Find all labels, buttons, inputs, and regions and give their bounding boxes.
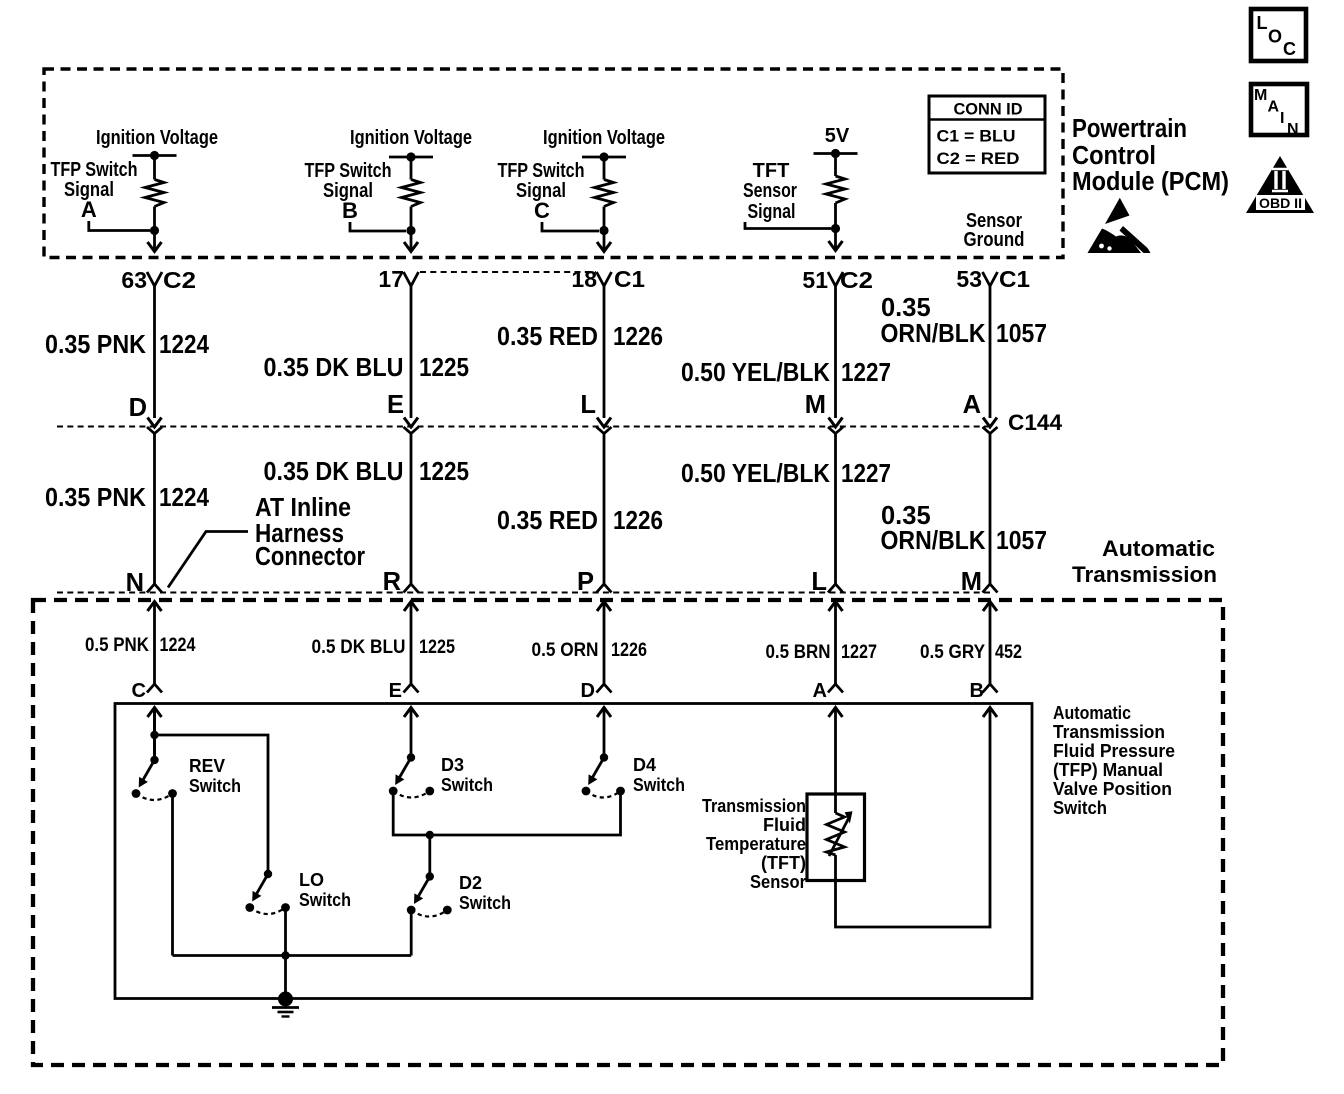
wire bbox=[153, 156, 156, 180]
label 0.5 BRN 1227 bbox=[766, 642, 878, 663]
svg-text:C2: C2 bbox=[163, 267, 196, 293]
wire D2 left contact down bbox=[410, 910, 413, 956]
pin arrow down 2 bbox=[404, 242, 418, 252]
wire C1 connector dashed link 17-18 bbox=[420, 271, 596, 273]
label 0.35 DK BLU 1225 upper bbox=[264, 354, 470, 382]
svg-text:0.5 ORN: 0.5 ORN bbox=[532, 640, 599, 661]
svg-text:0.50 YEL/BLK: 0.50 YEL/BLK bbox=[681, 460, 831, 488]
svg-text:Automatic: Automatic bbox=[1053, 703, 1131, 723]
pin L at C144 bbox=[580, 391, 611, 434]
svg-text:Transmission: Transmission bbox=[1072, 562, 1217, 587]
svg-text:18: 18 bbox=[571, 266, 597, 292]
svg-text:1225: 1225 bbox=[419, 458, 469, 486]
pin 63 C2 socket bbox=[121, 267, 196, 293]
entry arrow C wire bbox=[148, 602, 162, 685]
pin C socket bbox=[132, 680, 162, 702]
svg-text:TFP Switch: TFP Switch bbox=[51, 159, 138, 181]
svg-text:C2 = RED: C2 = RED bbox=[937, 149, 1020, 168]
svg-text:1224: 1224 bbox=[160, 635, 196, 656]
node Ignition Voltage 2 bbox=[350, 127, 472, 149]
label 0.5 DK BLU 1225 bbox=[312, 637, 456, 658]
label Powertrain Control Module (PCM) bbox=[1072, 115, 1229, 196]
node TFP Switch Signal C bbox=[498, 160, 585, 223]
icon LOC box bbox=[1251, 9, 1306, 61]
icon ESD symbol bbox=[1088, 198, 1151, 253]
svg-text:R: R bbox=[383, 568, 401, 596]
resistor TFT pull-up bbox=[826, 176, 845, 203]
wire E into box bbox=[404, 708, 418, 758]
wire pointer to AT inline connector bbox=[168, 532, 248, 588]
svg-text:Powertrain: Powertrain bbox=[1072, 115, 1187, 143]
svg-text:1057: 1057 bbox=[996, 527, 1047, 555]
wire branch to LO bbox=[155, 735, 269, 874]
pin M at C144 bbox=[805, 391, 843, 434]
pin M at inline bbox=[961, 568, 998, 596]
svg-text:C1 = BLU: C1 = BLU bbox=[937, 127, 1016, 146]
svg-text:0.5 GRY: 0.5 GRY bbox=[920, 642, 985, 663]
svg-text:Ignition Voltage: Ignition Voltage bbox=[96, 127, 218, 149]
wire ignition bar 3 bbox=[582, 152, 626, 161]
node Ignition Voltage 1 bbox=[96, 127, 218, 149]
svg-text:AT Inline: AT Inline bbox=[255, 494, 351, 522]
svg-text:L: L bbox=[811, 568, 827, 596]
svg-text:A: A bbox=[813, 680, 827, 702]
pin B socket bbox=[970, 680, 998, 702]
svg-text:(TFP) Manual: (TFP) Manual bbox=[1053, 760, 1163, 780]
label 0.35 PNK 1224 mid bbox=[45, 484, 210, 512]
label AT Inline Harness Connector bbox=[255, 494, 365, 571]
svg-text:D: D bbox=[581, 680, 595, 702]
svg-text:B: B bbox=[342, 198, 358, 223]
wire bbox=[834, 154, 837, 177]
svg-text:CONN ID: CONN ID bbox=[954, 100, 1023, 119]
svg-text:Control: Control bbox=[1072, 142, 1156, 170]
wire bbox=[406, 207, 415, 245]
svg-text:L: L bbox=[1257, 13, 1268, 33]
label 0.5 PNK 1224 bbox=[85, 635, 196, 656]
pin 17 socket bbox=[378, 266, 418, 292]
svg-text:1227: 1227 bbox=[841, 642, 877, 663]
label Transmission Fluid Temperature (TFT) Sensor bbox=[702, 796, 806, 892]
svg-text:Connector: Connector bbox=[255, 543, 365, 571]
svg-text:D3: D3 bbox=[441, 755, 464, 775]
svg-text:M: M bbox=[805, 391, 826, 419]
D3 switch bbox=[389, 753, 493, 797]
TFT sensor box bbox=[807, 794, 865, 881]
wire bracket C bbox=[542, 222, 599, 231]
label 0.35 ORN/BLK 1057 mid bbox=[881, 502, 1048, 555]
svg-text:P: P bbox=[577, 568, 594, 596]
wire TFT sensor return bbox=[836, 708, 998, 928]
svg-text:N: N bbox=[126, 569, 144, 597]
svg-text:Sensor: Sensor bbox=[743, 180, 797, 202]
wire bracket B bbox=[350, 222, 406, 231]
resistor pull-up 3 bbox=[595, 180, 614, 207]
wire 5V bar bbox=[814, 149, 858, 158]
wire bbox=[150, 207, 159, 245]
svg-text:Switch: Switch bbox=[189, 776, 241, 796]
node TFT Sensor Signal bbox=[743, 160, 797, 223]
svg-text:0.5 PNK: 0.5 PNK bbox=[85, 635, 149, 656]
entry arrow B wire bbox=[983, 602, 997, 685]
svg-text:Fluid Pressure: Fluid Pressure bbox=[1053, 741, 1175, 761]
svg-text:1227: 1227 bbox=[841, 460, 891, 488]
wire bracket A bbox=[89, 221, 150, 231]
label 0.35 RED 1226 upper bbox=[497, 323, 663, 351]
label 0.50 YEL/BLK 1227 upper bbox=[681, 359, 891, 387]
wire D2 drop bbox=[428, 835, 431, 877]
wire DK BLU upper bbox=[410, 286, 413, 418]
label Automatic Transmission bbox=[1072, 536, 1217, 587]
svg-text:17: 17 bbox=[378, 266, 404, 292]
label 0.35 DK BLU 1225 mid bbox=[264, 458, 470, 486]
svg-text:C: C bbox=[534, 198, 550, 223]
svg-text:M: M bbox=[1254, 87, 1267, 104]
label Automatic Transmission Fluid Pressure (TFP) Manual Valve Position Switch bbox=[1053, 703, 1175, 818]
svg-text:I: I bbox=[1280, 110, 1284, 127]
wire ORN/BLK upper bbox=[989, 286, 992, 418]
svg-text:0.35 DK BLU: 0.35 DK BLU bbox=[264, 354, 404, 382]
pin arrow down 3 bbox=[597, 242, 611, 252]
svg-text:Switch: Switch bbox=[299, 890, 351, 910]
thermistor TFT bbox=[827, 794, 853, 881]
TFP switch assembly box bbox=[115, 704, 1032, 999]
svg-text:1226: 1226 bbox=[611, 640, 647, 661]
pin arrow down 1 bbox=[148, 242, 162, 252]
wire C into box bbox=[148, 708, 162, 761]
svg-text:TFP Switch: TFP Switch bbox=[498, 160, 585, 182]
Powertrain Control Module PCM dashed box bbox=[44, 69, 1063, 258]
D4 switch bbox=[582, 753, 685, 797]
entry arrow E wire bbox=[404, 602, 418, 685]
svg-text:TFT: TFT bbox=[753, 160, 790, 182]
icon MAIN box bbox=[1251, 84, 1307, 138]
svg-text:Valve Position: Valve Position bbox=[1053, 779, 1172, 799]
wire PNK upper bbox=[153, 286, 156, 418]
node AT inline harness connector dashed line bbox=[57, 592, 990, 594]
svg-text:Ignition Voltage: Ignition Voltage bbox=[350, 127, 472, 149]
wire A into box bbox=[829, 708, 843, 795]
node TFP Switch Signal A bbox=[51, 159, 138, 222]
svg-text:OBD II: OBD II bbox=[1259, 196, 1302, 211]
svg-text:C: C bbox=[132, 680, 146, 702]
node Ignition Voltage 3 bbox=[543, 127, 665, 149]
pin P at inline bbox=[577, 568, 612, 596]
svg-text:0.35 DK BLU: 0.35 DK BLU bbox=[264, 458, 404, 486]
svg-text:5V: 5V bbox=[825, 125, 850, 147]
pin 53 C1 socket bbox=[956, 266, 1030, 292]
entry arrow A wire bbox=[829, 602, 843, 685]
entry arrow D wire bbox=[597, 602, 611, 685]
svg-text:LO: LO bbox=[299, 870, 324, 890]
svg-text:D2: D2 bbox=[459, 873, 482, 893]
pin 51 C2 socket bbox=[802, 267, 873, 293]
svg-text:A: A bbox=[963, 391, 981, 419]
svg-text:C2: C2 bbox=[840, 267, 873, 293]
icon OBD II triangle bbox=[1246, 156, 1314, 213]
D2 switch bbox=[407, 872, 511, 916]
wire DK BLU mid bbox=[410, 434, 413, 585]
wire ignition bar 2 bbox=[389, 152, 433, 161]
svg-text:Module (PCM): Module (PCM) bbox=[1072, 168, 1229, 196]
svg-text:1225: 1225 bbox=[419, 354, 469, 382]
svg-text:A: A bbox=[1268, 99, 1280, 116]
svg-text:A: A bbox=[81, 197, 97, 222]
svg-text:0.5 BRN: 0.5 BRN bbox=[766, 642, 831, 663]
label 0.5 GRY 452 bbox=[920, 642, 1022, 663]
svg-text:D: D bbox=[129, 394, 147, 422]
svg-text:51: 51 bbox=[802, 267, 828, 293]
svg-text:B: B bbox=[970, 680, 984, 702]
pin N at inline bbox=[126, 569, 162, 597]
pin R at inline bbox=[383, 568, 419, 596]
svg-text:Switch: Switch bbox=[441, 775, 493, 795]
wire ORN/BLK mid bbox=[989, 434, 992, 585]
svg-text:E: E bbox=[389, 680, 402, 702]
ground bbox=[272, 992, 299, 1017]
svg-text:D4: D4 bbox=[633, 755, 656, 775]
CONN ID table bbox=[929, 96, 1045, 173]
label 0.5 ORN 1226 bbox=[532, 640, 648, 661]
node TFP Switch Signal B bbox=[305, 160, 392, 223]
label 0.35 PNK 1224 upper bbox=[45, 331, 210, 359]
resistor pull-up 1 bbox=[145, 180, 164, 207]
wire D3 left contact down and across bbox=[393, 791, 620, 839]
svg-text:REV: REV bbox=[189, 756, 225, 776]
svg-text:53: 53 bbox=[956, 266, 982, 292]
svg-text:0.35 RED: 0.35 RED bbox=[497, 323, 598, 351]
svg-text:1227: 1227 bbox=[841, 359, 891, 387]
svg-text:(TFT): (TFT) bbox=[761, 853, 806, 873]
node 5V bbox=[825, 125, 850, 147]
svg-text:1057: 1057 bbox=[996, 320, 1047, 348]
svg-text:Automatic: Automatic bbox=[1102, 536, 1215, 561]
svg-text:0.35 PNK: 0.35 PNK bbox=[45, 484, 147, 512]
wire ignition bar 1 bbox=[133, 151, 177, 160]
wire YEL/BLK upper bbox=[834, 286, 837, 418]
svg-text:TFP Switch: TFP Switch bbox=[305, 160, 392, 182]
Automatic Transmission dashed box bbox=[33, 600, 1223, 1065]
svg-text:0.35 PNK: 0.35 PNK bbox=[45, 331, 147, 359]
wire PNK mid bbox=[153, 434, 156, 585]
REV switch bbox=[132, 756, 241, 800]
wire RED upper bbox=[603, 286, 606, 418]
svg-text:1226: 1226 bbox=[613, 507, 663, 535]
svg-text:Transmission: Transmission bbox=[702, 796, 806, 816]
wire bbox=[603, 157, 606, 180]
svg-text:1225: 1225 bbox=[419, 637, 455, 658]
svg-text:ORN/BLK: ORN/BLK bbox=[881, 320, 987, 348]
wire RED mid bbox=[603, 434, 606, 585]
svg-text:C: C bbox=[1283, 39, 1296, 59]
pin L at inline bbox=[811, 568, 843, 596]
pin E socket bbox=[389, 680, 419, 702]
svg-text:1224: 1224 bbox=[159, 331, 210, 359]
svg-text:Temperature: Temperature bbox=[706, 834, 806, 854]
svg-text:C1: C1 bbox=[999, 266, 1030, 292]
pin 18 C1 socket bbox=[571, 266, 645, 292]
svg-text:Signal: Signal bbox=[748, 201, 796, 223]
resistor pull-up 2 bbox=[402, 180, 421, 207]
svg-text:Transmission: Transmission bbox=[1053, 722, 1165, 742]
wire bottom run bbox=[173, 954, 412, 957]
pin arrow down 4 bbox=[829, 241, 843, 251]
node C144 connector dashed line bbox=[57, 410, 1063, 435]
wire bbox=[831, 203, 840, 242]
svg-text:Sensor: Sensor bbox=[750, 872, 806, 892]
LO switch bbox=[245, 870, 351, 914]
pin A at C144 bbox=[963, 391, 998, 434]
svg-text:Ignition Voltage: Ignition Voltage bbox=[543, 127, 665, 149]
pin A socket bbox=[813, 680, 843, 702]
pin D at C144 bbox=[129, 394, 162, 434]
wire LO right contact to ground bbox=[281, 908, 289, 1000]
svg-text:N: N bbox=[1287, 121, 1299, 138]
svg-text:0.35: 0.35 bbox=[881, 502, 931, 530]
wire bracket TFT bbox=[745, 222, 831, 229]
pin D socket bbox=[581, 680, 612, 702]
svg-text:Switch: Switch bbox=[633, 775, 685, 795]
svg-text:Ground: Ground bbox=[964, 229, 1025, 251]
svg-text:452: 452 bbox=[995, 642, 1022, 663]
label 0.35 ORN/BLK 1057 upper bbox=[881, 294, 1048, 348]
svg-text:L: L bbox=[580, 391, 596, 419]
svg-text:Switch: Switch bbox=[1053, 798, 1107, 818]
label 0.50 YEL/BLK 1227 mid bbox=[681, 460, 891, 488]
svg-text:C1: C1 bbox=[614, 266, 645, 292]
svg-text:63: 63 bbox=[121, 267, 147, 293]
wire D into box bbox=[597, 708, 611, 758]
node Sensor Ground bbox=[964, 210, 1025, 251]
svg-text:0.35: 0.35 bbox=[881, 294, 931, 322]
svg-text:C144: C144 bbox=[1008, 410, 1063, 435]
wire bbox=[410, 157, 413, 180]
svg-text:0.50 YEL/BLK: 0.50 YEL/BLK bbox=[681, 359, 831, 387]
svg-text:M: M bbox=[961, 568, 982, 596]
svg-text:1224: 1224 bbox=[159, 484, 210, 512]
svg-text:Fluid: Fluid bbox=[763, 815, 806, 835]
svg-text:0.5 DK BLU: 0.5 DK BLU bbox=[312, 637, 406, 658]
svg-text:1226: 1226 bbox=[613, 323, 663, 351]
svg-text:ORN/BLK: ORN/BLK bbox=[881, 527, 987, 555]
wire bbox=[599, 207, 608, 245]
wire YEL/BLK mid bbox=[834, 434, 837, 585]
svg-text:E: E bbox=[387, 391, 404, 419]
svg-text:O: O bbox=[1268, 27, 1282, 47]
pin E at C144 bbox=[387, 391, 419, 434]
wire REV right contact down bbox=[171, 794, 174, 956]
svg-text:0.35 RED: 0.35 RED bbox=[497, 507, 598, 535]
label 0.35 RED 1226 mid bbox=[497, 507, 663, 535]
svg-text:Switch: Switch bbox=[459, 893, 511, 913]
